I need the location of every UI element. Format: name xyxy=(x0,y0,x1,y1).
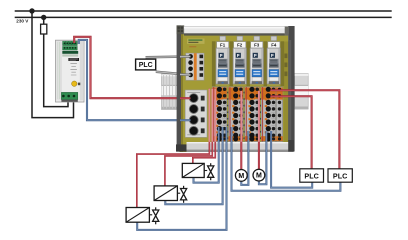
motor M1 xyxy=(235,170,247,182)
wire L to PSU input xyxy=(32,11,74,118)
wire blue motor M2 return xyxy=(259,131,267,184)
module nameplate label xyxy=(187,39,205,48)
wire red to PLC right 2 xyxy=(270,90,339,169)
svg-text:F3: F3 xyxy=(254,43,260,48)
wire PSU - output (blue) to module xyxy=(79,40,191,120)
terminal end strip xyxy=(276,87,282,142)
wire blue solenoid Y3 return xyxy=(137,127,226,230)
wire red to motor M1 xyxy=(240,91,242,170)
terminal strip group 2 xyxy=(229,87,246,142)
svg-text:P: P xyxy=(254,53,257,58)
wire red to PLC right 1 xyxy=(270,96,311,169)
power supply U1 body xyxy=(56,40,85,102)
terminal strip group 4 xyxy=(261,87,278,142)
circuit breaker F3 xyxy=(250,36,263,84)
fuse F xyxy=(41,24,47,34)
wires blue returns xyxy=(137,127,340,230)
breaker module body (olive) xyxy=(180,34,289,152)
module right dark edge xyxy=(288,26,294,152)
node junction on L xyxy=(29,8,34,13)
wire PSU + into module terminal xyxy=(180,97,191,99)
wire blue solenoid Y2 return xyxy=(165,127,222,204)
node junction on N xyxy=(41,15,46,20)
wire blue motor M1 return xyxy=(241,131,248,185)
bus line N (230V second) xyxy=(15,16,392,18)
svg-text:F4: F4 xyxy=(271,43,277,48)
module left dark edge xyxy=(177,25,181,151)
terminal strip group 3 xyxy=(245,87,262,142)
wire blue PLC right 2 return xyxy=(232,127,341,191)
red wire in-module highlight xyxy=(209,89,259,142)
wire blue PLC right 1 return xyxy=(271,131,312,188)
PSU logo dot xyxy=(72,81,77,86)
svg-text:PLC: PLC xyxy=(304,171,318,180)
svg-text:M: M xyxy=(256,173,262,180)
wire red to solenoid Y3 xyxy=(137,89,210,208)
terminal strip group 1 xyxy=(212,87,229,142)
motor M2 xyxy=(253,169,265,181)
wire red to solenoid Y1 xyxy=(193,89,216,164)
svg-text:F2: F2 xyxy=(237,43,243,48)
PSU bottom terminals xyxy=(61,92,77,101)
wire N to fuse xyxy=(43,17,45,24)
wire PLC signal lower end xyxy=(180,73,191,76)
bus line L (230V top) xyxy=(15,10,392,12)
wire PSU + output (red) to module xyxy=(74,37,190,98)
wire red to solenoid Y2 xyxy=(165,89,212,186)
wires red group1 to solenoids xyxy=(241,90,339,169)
wire red to motor M2 xyxy=(258,91,260,169)
DIN rail left segment xyxy=(162,74,180,110)
svg-text:230 V: 230 V xyxy=(16,19,29,24)
wire PSU - into module terminal xyxy=(180,119,191,121)
svg-text:P: P xyxy=(271,53,274,58)
wire PLC signal upper end xyxy=(180,55,191,58)
breaker separation grooves xyxy=(212,41,284,86)
wire blue solenoid Y2 return xyxy=(165,127,222,204)
circuit breaker F4 xyxy=(267,36,280,84)
wire blue solenoid Y3 return xyxy=(137,127,226,230)
PSU front labels xyxy=(62,51,79,75)
wire blue motor M1 return xyxy=(241,131,248,185)
PLC box left xyxy=(136,59,156,70)
svg-text:P: P xyxy=(220,53,223,58)
wire blue PLC right 1 return xyxy=(271,131,312,188)
solenoid valve Y3 xyxy=(126,207,159,224)
module top busbar cover xyxy=(184,26,288,35)
wire red to motor M2 xyxy=(258,91,260,169)
wire red to PLC right 2 xyxy=(270,90,339,169)
wire blue solenoid Y1 return xyxy=(194,127,219,183)
wire blue motor M2 return xyxy=(259,131,267,184)
module power-in panel xyxy=(185,90,207,137)
svg-text:PLC: PLC xyxy=(333,171,347,180)
PLC box right 2 xyxy=(328,169,352,182)
module signal terminal block xyxy=(186,53,204,80)
circuit breaker F1 xyxy=(216,36,229,84)
wire blue PLC right 2 return xyxy=(232,127,341,191)
wire PLC signal upper (gray) xyxy=(146,55,190,58)
wire blue solenoid Y1 return xyxy=(194,127,219,183)
wire red to motor M1 xyxy=(240,91,242,170)
PLC box right 1 xyxy=(300,169,324,182)
wire fuse to PSU input xyxy=(44,34,68,107)
solenoid valve Y1 xyxy=(182,163,214,180)
module bottom rail cover xyxy=(176,140,294,152)
wire red to PLC right 1 xyxy=(270,96,311,169)
circuit breaker F2 xyxy=(233,36,246,84)
svg-text:P: P xyxy=(237,53,240,58)
svg-text:PLC: PLC xyxy=(139,62,153,69)
DIN rail right segment xyxy=(295,74,309,110)
svg-text:F1: F1 xyxy=(220,43,226,48)
svg-text:M: M xyxy=(238,173,244,180)
wire PLC signal lower (gray) xyxy=(156,72,189,75)
PSU top terminals xyxy=(63,41,78,50)
solenoid valve Y2 xyxy=(154,186,187,203)
